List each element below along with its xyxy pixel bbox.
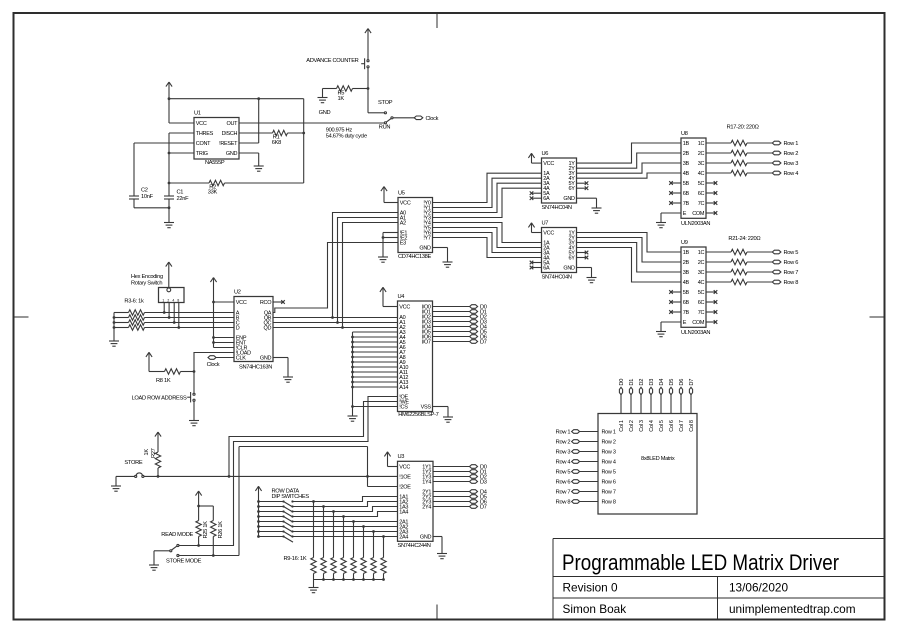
svg-text:Col 1: Col 1 [619,420,625,432]
ground for U5 enables [378,257,388,262]
svg-text:Row 3: Row 3 [784,161,799,167]
ground below LOAD ROW ADDRESS [189,421,199,426]
svg-text:8x8LED Matrix: 8x8LED Matrix [641,456,675,462]
svg-text:Revision 0: Revision 0 [563,581,619,595]
label R21-24 220ohm [728,236,760,242]
svg-text:6Y: 6Y [569,256,576,262]
wire DIP row 4 to U3 1A4 [293,512,398,518]
label frequency note [326,128,367,140]
connector D5 at U4 [470,330,478,334]
svg-text:GND: GND [260,356,272,362]
svg-text:!RESET: !RESET [219,141,238,147]
svg-text:Col 2: Col 2 [629,420,635,432]
wire rotary pin 8 to net D [177,303,180,329]
svg-text:VCC: VCC [399,305,410,311]
power VCC arrow for DIP switch bus [255,486,261,501]
svg-text:!2OE: !2OE [399,485,411,491]
no-connect U9 5C [706,290,717,294]
connector D2 to matrix column [639,387,642,413]
power VCC arrow for U3 [384,452,397,467]
connector Row 4 input to matrix [572,460,598,464]
label D5 at U3 [480,495,487,501]
label Row 8 [784,280,799,286]
svg-text:QD: QD [264,326,272,332]
svg-text:1C: 1C [698,250,705,256]
svg-text:Row 3: Row 3 [602,450,616,456]
wire DIP row 8 to U3 2A4 [293,535,398,538]
connector Row 7 output [772,270,781,274]
resistor R11 1K pulldown [331,512,336,580]
svg-text:3C: 3C [698,161,705,167]
wire U5 !Y4 to U7 1A [433,223,542,243]
label D0 at matrix [619,379,625,386]
border tick bottom-center [436,605,438,620]
wire U8 E to ground [661,213,681,223]
svg-text:VCC: VCC [543,161,554,167]
connector D1 at U4 [470,310,478,314]
author text [563,602,627,616]
wire U3 output to D2 [433,476,470,478]
wire U3 output to D7 [433,506,470,508]
label ROW DATA DIP SWITCHES [272,489,310,501]
pin label Col 2 inside matrix [629,420,635,432]
wire U4 I/O7 to connector [433,341,470,343]
svg-text:54.67% duty cycle: 54.67% duty cycle [326,133,367,139]
label STORE MODE [166,559,202,565]
svg-text:1B: 1B [683,141,690,147]
wire U1 OUT to RUN switch [239,122,384,124]
svg-text:STORE: STORE [124,460,142,466]
wire U6 1Y to U8 1B [577,143,682,163]
wire U3 output to D6 [433,501,470,503]
svg-text:Row 7: Row 7 [556,490,571,496]
wire U4 I/O6 to connector [433,336,470,338]
wire U7 GND to ground [577,268,592,278]
svg-text:!1OE: !1OE [399,475,411,481]
svg-text:6K8: 6K8 [272,140,281,146]
svg-text:D7: D7 [480,505,487,511]
ground left of STORE button [111,486,121,491]
label D6 at U3 [480,500,487,506]
resistor R1 6K8 (DISCH to rail) [239,130,304,146]
power VCC arrow above rotary switch [166,262,172,288]
connector D7 at U4 [470,340,478,344]
label D1 at U3 [480,470,487,476]
wire U6 3Y to U8 3B [577,163,682,173]
label ADVANCE COUNTER [306,58,358,64]
connector Row 7 input to matrix [572,490,598,494]
connector D4 at U3 [470,490,478,494]
pin label Row 7 inside matrix [602,490,616,496]
svg-text:THRES: THRES [196,131,214,137]
title block [553,539,885,620]
svg-text:1K: 1K [144,449,150,456]
connector D6 to matrix column [679,387,682,413]
resistor R22 220 [706,259,772,264]
pin label Row 1 inside matrix [602,430,616,436]
connector D3 to matrix column [649,387,652,413]
push button STORE [135,473,144,478]
label RUN [379,125,391,131]
resistor R4 1k [114,315,234,320]
connector Row 6 output [772,260,781,264]
svg-text:HM62256BLSP-7: HM62256BLSP-7 [398,412,438,418]
ground for U2 [283,377,293,382]
wire DIP row 2 to U3 1A2 [293,502,398,508]
wire U4 !OE to READ MODE switch [179,397,397,546]
svg-text:VCC: VCC [196,121,207,127]
label D3 at matrix [649,379,655,386]
svg-text:Row 8: Row 8 [602,500,616,506]
connector Row 3 input to matrix [572,450,598,454]
svg-text:Row 8: Row 8 [784,280,799,286]
svg-text:Row 8: Row 8 [556,500,571,506]
resistor R17 220 [706,140,772,145]
rotary switch SW1 hex encoding [159,288,185,303]
IC U7 SN74HC04N hex inverter [542,220,577,280]
connector D1 at U3 [470,470,478,474]
svg-text:R27: R27 [151,448,157,458]
IC U3 SN74HC244N buffer [398,454,434,549]
resistor R26 1K (STORE MODE pullup) [199,506,224,557]
push button ADVANCE COUNTER [361,58,369,69]
wire rotary pin 1 to net A [163,303,166,314]
power VCC arrow above U1 [166,82,172,99]
capacitor C2 10nF [129,187,154,208]
ground below C1 [164,223,174,228]
no-connect U6 5Y [577,181,589,185]
no-connect U9 6B [669,300,681,304]
no-connect U8 6C [706,191,717,195]
wire U7 2Y to U9 2B [577,238,682,263]
label D3 at U3 [480,480,487,486]
svg-text:2B: 2B [683,260,690,266]
label Row 6 at matrix [556,480,571,486]
wire DIP row 7 to U3 2A3 [293,530,398,533]
label Row 8 at matrix [556,500,571,506]
label D3 at U4 [480,320,487,326]
connector Row 2 input to matrix [572,440,598,444]
capacitor C1 22nF [164,189,189,208]
ground for U4 VSS [443,417,453,422]
wire VCC rail to U1 (VCC / !RESET / R1-R2 rail) [168,97,306,183]
svg-text:SN74HC163N: SN74HC163N [239,365,272,371]
svg-text:7B: 7B [683,310,690,316]
svg-text:Col 5: Col 5 [659,420,665,432]
label D2 at U3 [480,475,487,481]
wire STORE button left to ground [116,476,135,486]
svg-text:VCC: VCC [543,231,554,237]
svg-text:7B: 7B [683,201,690,207]
svg-text:R21-24: 220Ω: R21-24: 220Ω [728,236,760,242]
ground for U4 address bus [348,416,358,421]
wire R9-16 ground bus [314,578,385,587]
connector Row 5 input to matrix [572,470,598,474]
wire U4 !WE to STORE net [229,402,398,477]
label D7 at matrix [689,379,695,386]
svg-text:Col 6: Col 6 [669,420,675,432]
resistor R9 1K pulldown [311,502,316,580]
label Row 5 [784,250,799,256]
svg-text:Row 4: Row 4 [556,460,571,466]
label READ MODE [161,532,193,538]
svg-text:D5: D5 [669,379,675,386]
label D4 at U4 [480,325,487,331]
wire U2 QC to U4 A1 and U5 A1 [273,218,398,324]
resistor R14 1K pulldown [361,527,366,580]
label D7 at U4 [480,340,487,346]
switch READ MODE / STORE MODE [170,544,179,556]
label D2 at U4 [480,315,487,321]
resistor R6 1k [114,325,234,330]
wire U5 !Y7 to U7 4A [433,238,542,258]
label D6 at U4 [480,335,487,341]
resistor R27 1K pullup [144,432,161,476]
svg-text:A14: A14 [399,385,408,391]
svg-text:2C: 2C [698,260,705,266]
wire button to STOP contact [367,68,384,113]
label D7 at U3 [480,505,487,511]
wire DIP row 3 to U3 1A3 [293,507,398,513]
svg-text:1Y4: 1Y4 [422,480,431,486]
svg-text:unimplementedtrap.com: unimplementedtrap.com [729,602,856,616]
wire U2 !LOAD to push button [193,353,234,393]
svg-text:Row 5: Row 5 [784,250,799,256]
pin label Row 8 inside matrix [602,500,616,506]
connector D2 at U4 [470,315,478,319]
pin label Row 3 inside matrix [602,450,616,456]
svg-text:Clock: Clock [207,362,220,368]
connector Row 4 output [772,171,781,175]
svg-text:D2: D2 [639,379,645,386]
wire DIP row 5 to U3 2A1 [293,520,398,523]
push button LOAD ROW ADDRESS [187,392,195,402]
label LOAD ROW ADDRESS [132,396,187,402]
svg-text:RUN: RUN [379,125,391,131]
LED matrix DS1 8x8 [598,414,697,515]
svg-text:Row 1: Row 1 [556,430,571,436]
svg-text:Clock: Clock [426,116,439,122]
pin label Col 8 inside matrix [689,420,695,432]
border tick left-middle [14,316,29,318]
svg-text:C2: C2 [141,187,148,193]
wire STORE net (button to U3 !1OE, R27, !WE riser) [144,475,398,478]
svg-text:33K: 33K [208,190,218,196]
pin label Col 7 inside matrix [679,420,685,432]
svg-text:D1: D1 [629,379,635,386]
connector D4 at U4 [470,325,478,329]
svg-text:5C: 5C [698,290,705,296]
svg-text:!Y7: !Y7 [423,236,431,242]
svg-text:DIP SWITCHES: DIP SWITCHES [272,494,310,500]
connector D2 at U3 [470,475,478,479]
svg-text:R17-20: 220Ω: R17-20: 220Ω [727,125,759,131]
svg-text:TRIG: TRIG [196,151,208,157]
resistor R23 220 [706,269,772,274]
svg-text:Simon Boak: Simon Boak [563,602,627,616]
connector Clock output [414,116,423,120]
svg-text:GND: GND [563,196,575,202]
connector D7 at U3 [470,505,478,509]
label R8 1K [156,378,171,384]
svg-text:2A4: 2A4 [399,535,408,541]
wire U4 I/O1 to connector [433,311,470,313]
label Clock at U2 [207,362,220,368]
svg-text:5C: 5C [698,181,705,187]
svg-text:1K: 1K [338,96,345,102]
svg-text:3B: 3B [683,270,690,276]
connector D5 to matrix column [669,387,672,413]
pin label Row 6 inside matrix [602,480,616,486]
svg-text:6C: 6C [698,300,705,306]
svg-text:U1: U1 [194,110,201,116]
no-connect U7 6Y [577,256,589,260]
label D1 at matrix [629,379,635,386]
label R17-20 220ohm [727,125,759,131]
pin label Col 1 inside matrix [619,420,625,432]
svg-text:Row 6: Row 6 [602,480,616,486]
svg-text:SN74HC04N: SN74HC04N [542,275,572,281]
svg-text:Row 3: Row 3 [556,450,571,456]
switch DIP row 5 [259,520,294,527]
connector Row 5 output [772,250,781,254]
svg-text:1A4: 1A4 [399,510,408,516]
label D0 at U3 [480,465,487,471]
no-connect U9 COM [706,320,717,324]
connector D3 at U3 [470,480,478,484]
svg-text:STORE MODE: STORE MODE [166,559,202,565]
wire U7 3Y to U9 3B [577,243,682,273]
label Row 2 at matrix [556,440,571,446]
svg-text:7C: 7C [698,310,705,316]
svg-text:6Y: 6Y [569,186,576,192]
no-connect U8 5C [706,181,717,185]
no-connect U9 6C [706,300,717,304]
connector Row 6 input to matrix [572,480,598,484]
power VCC arrow for U5 [381,187,398,203]
switch DIP row 2 [259,505,294,512]
wire U2 QD to U4 A2 and U5 A2 [273,223,398,329]
svg-text:R8 1K: R8 1K [156,378,171,384]
svg-text:4B: 4B [683,280,690,286]
svg-text:VCC: VCC [236,300,247,306]
resistor R15 1K pulldown [371,532,376,580]
wire U5 !Y6 to U7 3A [433,233,542,253]
no-connect U6 5A [530,191,542,195]
label D1 at U4 [480,310,487,316]
no-connect U8 7B [669,201,681,205]
svg-text:Col 3: Col 3 [639,420,645,432]
svg-text:22nF: 22nF [177,196,190,202]
resistor R2 33K [169,180,304,195]
pin label Col 5 inside matrix [659,420,665,432]
ground for U6 [592,208,602,213]
svg-text:Row 7: Row 7 [784,270,799,276]
resistor R12 1K pulldown [341,517,346,580]
wire CONT to C2 [134,143,194,196]
IC U4 HM62256BLSP-7 SRAM [398,294,439,418]
switch DIP row 4 [259,515,294,522]
wire U3 output to D5 [433,496,470,498]
pin label Col 4 inside matrix [649,420,655,432]
svg-text:U7: U7 [542,220,549,226]
connector Row 8 output [772,280,781,284]
svg-text:RCO: RCO [260,300,272,306]
border tick top-center [436,13,438,28]
resistor R25 1K (READ MODE pullup) [196,491,210,547]
pin label Col 6 inside matrix [669,420,675,432]
label Row 4 at matrix [556,460,571,466]
svg-text:Row 5: Row 5 [602,470,616,476]
ground for R9-16 [309,588,319,593]
svg-text:Row 1: Row 1 [784,141,799,147]
resistor R21 220 [706,249,772,254]
label Row 7 at matrix [556,490,571,496]
label Row 5 at matrix [556,470,571,476]
svg-text:3C: 3C [698,270,705,276]
connector Row 1 input to matrix [572,430,598,434]
svg-text:R25 1K: R25 1K [203,521,209,539]
label D2 at matrix [639,379,645,386]
pin label Row 5 inside matrix [602,470,616,476]
ground for U8 [656,223,666,228]
label Clock [426,116,439,122]
svg-text:GND: GND [319,110,331,116]
svg-text:CD74HC138E: CD74HC138E [398,254,432,260]
label Row 4 [784,171,799,177]
wire DIP row 6 to U3 2A2 [293,525,398,528]
svg-text:1B: 1B [683,250,690,256]
wire U3 output to D4 [433,491,470,493]
svg-text:Row 7: Row 7 [602,490,616,496]
svg-text:READ MODE: READ MODE [161,532,193,538]
svg-text:D3: D3 [480,480,487,486]
wire R5 to ground [322,89,324,98]
svg-text:ADVANCE COUNTER: ADVANCE COUNTER [306,58,358,64]
wire mode switch common to ground [154,551,170,565]
wire U3 output to D0 [433,466,470,468]
svg-text:5B: 5B [683,290,690,296]
svg-text:Row 6: Row 6 [556,480,571,486]
label Row 3 at matrix [556,450,571,456]
ground for U7 [587,278,597,283]
wire U5 !Y0 to U6 1A [433,173,542,202]
connector D5 at U3 [470,495,478,499]
svg-text:6B: 6B [683,191,690,197]
wire U4 I/O2 to connector [433,316,470,318]
svg-text:E3: E3 [400,241,406,247]
connector D0 at U3 [470,465,478,469]
svg-text:U4: U4 [398,294,405,300]
connector D1 to matrix column [629,387,632,413]
svg-text:COM: COM [692,211,705,217]
wire U4 I/O4 to connector [433,326,470,328]
svg-text:D4: D4 [659,379,665,386]
connector D3 at U4 [470,320,478,324]
connector D7 to matrix column [689,387,692,413]
svg-text:7C: 7C [698,201,705,207]
svg-text:CONT: CONT [196,141,211,147]
wire U6 4Y to U8 4B [577,173,682,178]
resistor R10 1K pulldown [321,507,326,580]
label R3-6 1k [124,299,144,305]
no-connect U9 7C [706,310,717,314]
wire U3 GND to ground [433,537,442,554]
no-connect U9 5B [669,290,681,294]
svg-text:D: D [236,326,240,332]
resistor R3 1k [114,310,234,315]
power VCC arrow + rail for U2 (VCC/ENP/ENT/!CLR) [210,278,234,348]
